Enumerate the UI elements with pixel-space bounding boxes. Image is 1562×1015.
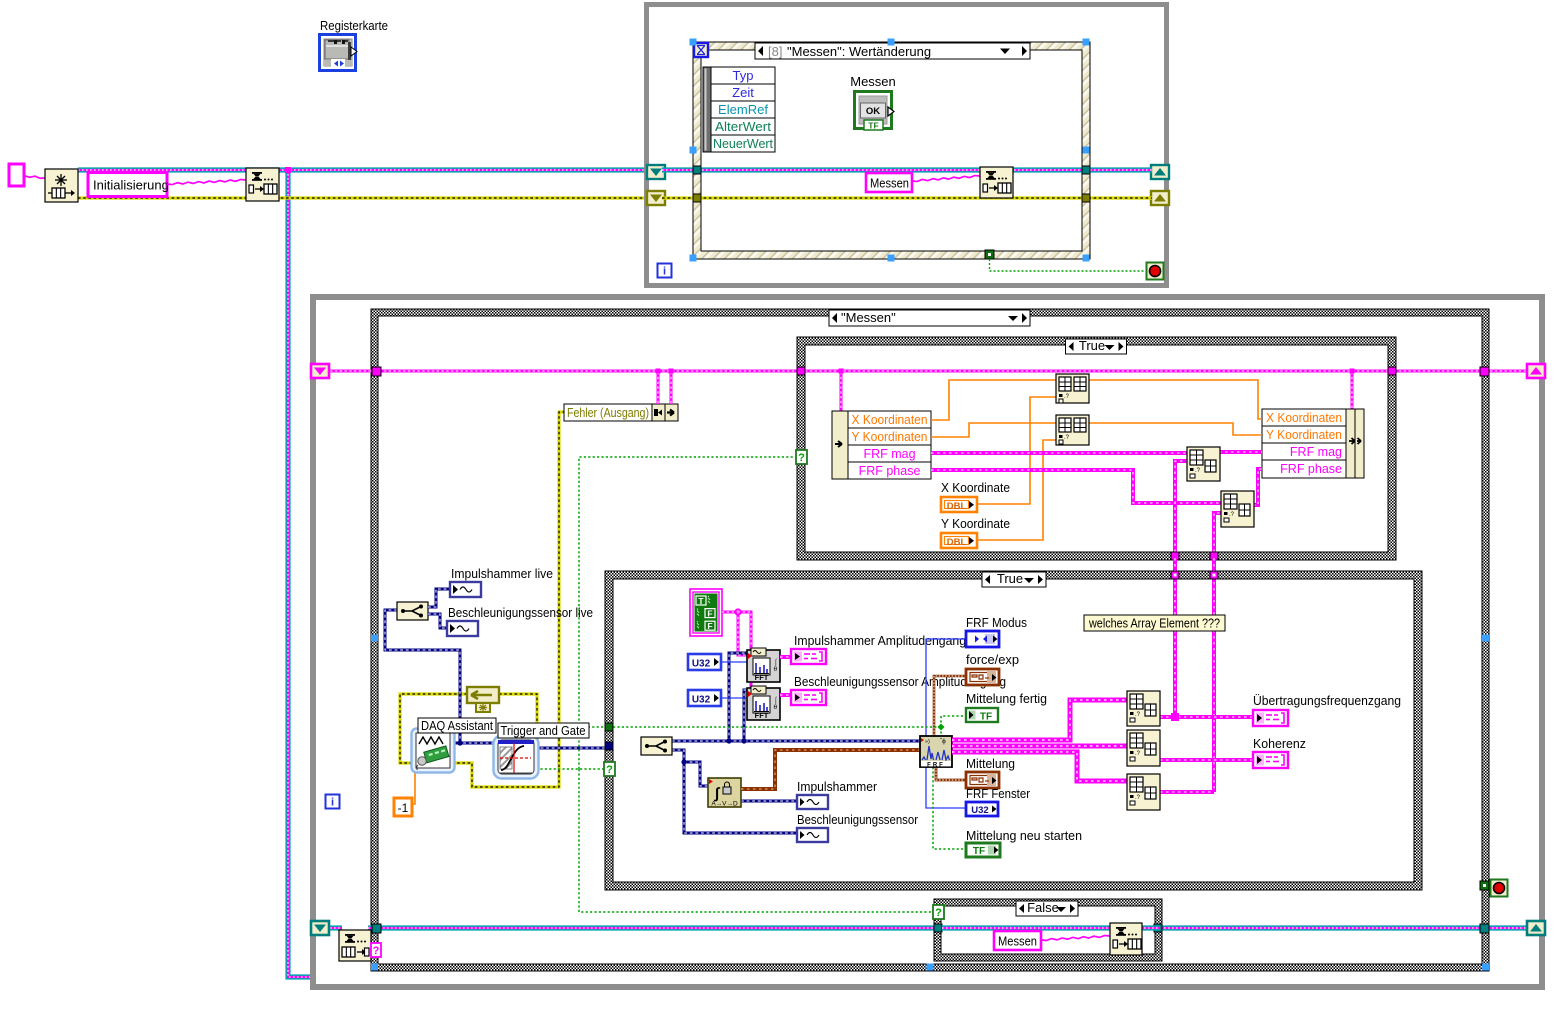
svg-text:?: ? bbox=[935, 907, 942, 919]
tunnel: queue out of False case bbox=[1154, 924, 1162, 932]
svg-text:FRF mag: FRF mag bbox=[1290, 445, 1342, 459]
wire: string Initialisierung to Enqueue bbox=[167, 179, 246, 184]
wire: boolean from Trigger and Gate (green dotted net) bbox=[536, 768, 606, 770]
svg-text:F: F bbox=[707, 621, 712, 631]
wire: dynamic data DAQ to split/Trigger bbox=[385, 610, 460, 743]
svg-text:.?: .? bbox=[1135, 795, 1141, 801]
iteration terminal top loop bbox=[658, 264, 672, 278]
shift register right (error, olive) bbox=[1151, 191, 1169, 205]
svg-text:Y Koordinaten: Y Koordinaten bbox=[1266, 428, 1342, 442]
wire: error from feedback node to Trigger and Gate bbox=[499, 694, 537, 757]
svg-text:i: i bbox=[663, 266, 666, 278]
svg-text:FRF Modus: FRF Modus bbox=[966, 615, 1027, 630]
wire: FRF phase array to insert node 4 bbox=[931, 470, 1221, 503]
while loop (main measurement loop) bbox=[310, 294, 1545, 990]
wire: branch up to FFT 1 bbox=[729, 653, 748, 741]
wire: error across event structure bbox=[662, 196, 1152, 199]
wire: X Koordinate to insert node 1 bbox=[977, 397, 1056, 504]
svg-text:θ: θ bbox=[774, 666, 778, 673]
wire: index node B to Koherenz bbox=[1160, 758, 1253, 762]
wire: queue across event structure bbox=[662, 167, 1152, 172]
wire: lower branch to integration and indicators bbox=[672, 750, 797, 833]
wire: cluster from Bundle By Name up to main bbox=[1351, 372, 1354, 409]
svg-text:U32: U32 bbox=[971, 805, 988, 816]
svg-text:F: F bbox=[707, 609, 712, 619]
wire: insert node 4 out to Bundle FRF phase bbox=[1253, 469, 1262, 505]
wire: U32 to FFT2 bbox=[721, 697, 748, 699]
svg-text:.?: .? bbox=[1135, 751, 1141, 757]
wire: index node C output up to case 1 bbox=[1160, 790, 1214, 794]
label: welches Array Element ??? bbox=[1084, 615, 1225, 631]
wire: integration brown ribbon to FRF bbox=[741, 750, 921, 789]
wire: force/exp to FRF node bbox=[934, 676, 966, 736]
svg-text:TF: TF bbox=[868, 121, 878, 131]
tunnel: error right bbox=[1082, 194, 1090, 202]
wire: split to Impulshammer live bbox=[428, 589, 450, 607]
boolean array constant T F F bbox=[690, 589, 722, 636]
tunnel: queue out of case (right) bbox=[1480, 924, 1489, 933]
wire: error from DAQ Assistant to Fehler (Ausgang) bbox=[452, 412, 564, 787]
shift register left (queue, teal) bbox=[647, 165, 665, 179]
svg-text:?: ? bbox=[373, 945, 380, 957]
wire: queue along bottom inside case bbox=[379, 925, 936, 930]
svg-text:"Messen": Wertänderung: "Messen": Wertänderung bbox=[787, 44, 931, 59]
wire: cluster branch down to Fehler (Ausgang) cell 1 bbox=[657, 372, 660, 404]
case selector terminal case2 bbox=[604, 762, 615, 776]
svg-text:Beschleunigungssensor: Beschleunigungssensor bbox=[797, 812, 919, 827]
svg-text:force/exp: force/exp bbox=[966, 652, 1019, 667]
tunnel: cluster out of case (right) bbox=[1480, 367, 1489, 376]
case selector terminal (string ?) bbox=[371, 943, 381, 957]
svg-text:Trigger and Gate: Trigger and Gate bbox=[501, 724, 586, 738]
svg-text:T: T bbox=[698, 596, 704, 606]
svg-text:Y Koordinate: Y Koordinate bbox=[941, 516, 1010, 531]
svg-text:Messen: Messen bbox=[850, 74, 896, 89]
wire: split to Beschleunigungssensor live bbox=[428, 614, 447, 628]
node: Bundle By Name (right) bbox=[1262, 409, 1346, 478]
wire: insert node 2 out to Bundle Y bbox=[1089, 423, 1262, 435]
svg-text:X Koordinaten: X Koordinaten bbox=[852, 413, 928, 427]
svg-text:Typ: Typ bbox=[733, 68, 754, 83]
tunnel: cluster into case (left) bbox=[372, 367, 381, 376]
event structure border bbox=[693, 42, 1090, 259]
wire: queue refnum vertical branch down to lower loop bbox=[288, 170, 312, 977]
svg-text:Impulshammer live: Impulshammer live bbox=[451, 566, 553, 581]
case selector terminal case1 bbox=[796, 450, 807, 464]
wire: boolean Mittelung neu starten bbox=[933, 767, 966, 849]
wire: U32 to FFT1 bbox=[721, 661, 748, 663]
svg-text:AlterWert: AlterWert bbox=[715, 119, 771, 134]
case selector terminal False case bbox=[933, 905, 944, 919]
svg-text:ElemRef: ElemRef bbox=[718, 102, 768, 117]
constant U32 (FFT 2) bbox=[688, 690, 721, 706]
tunnel: FRF mag bottom of case1 bbox=[1171, 552, 1179, 560]
tunnel: FRF mag top of case2 bbox=[1171, 571, 1179, 579]
string control (unlabeled) bbox=[9, 164, 24, 186]
wire: new FRF phase element from case 2 up to node 4 bbox=[1214, 513, 1221, 558]
tunnel: FRF phase bottom of case1 bbox=[1210, 552, 1218, 560]
tunnel: queue into False case bbox=[934, 924, 942, 932]
svg-text:FRF phase: FRF phase bbox=[1280, 462, 1342, 476]
wire: dynamic data Trigger and Gate out to case tunnel bbox=[535, 747, 608, 750]
shift register left (cluster, pink) bbox=[311, 364, 329, 378]
case structure False bbox=[934, 899, 1162, 961]
wire: stop boolean to loop condition bbox=[990, 259, 1148, 271]
svg-text:θ: θ bbox=[774, 704, 778, 711]
svg-text:NeuerWert: NeuerWert bbox=[713, 136, 773, 151]
wire: new FRF mag element from case 2 up to node 3 bbox=[1175, 461, 1187, 558]
wire: X Koordinaten array to insert node 1 bbox=[931, 380, 1056, 420]
svg-text:U32: U32 bbox=[692, 695, 711, 706]
svg-text:.?: .? bbox=[1135, 712, 1141, 718]
event structure timeout terminal bbox=[694, 43, 708, 57]
node: index array A bbox=[1127, 691, 1160, 726]
svg-text:X Koordinate: X Koordinate bbox=[941, 480, 1010, 495]
wire: FRF to Mittelung indicator bbox=[936, 767, 966, 780]
svg-text:Koherenz: Koherenz bbox=[1253, 736, 1306, 751]
tunnel: queue left bbox=[693, 166, 701, 174]
wire: error feedback loop left segment bbox=[400, 694, 467, 763]
case selector label False bbox=[1016, 901, 1078, 916]
svg-text:⌠: ⌠ bbox=[774, 658, 778, 666]
svg-text:FRF mag: FRF mag bbox=[863, 447, 915, 461]
wire: boolean array to FFT export inputs bbox=[722, 611, 738, 614]
constant -1 (orange) bbox=[394, 798, 412, 816]
tunnel: stop boolean out of case bbox=[1480, 881, 1489, 890]
event structure selection handles bbox=[690, 39, 697, 46]
svg-text:[8]: [8] bbox=[768, 44, 782, 59]
express VI: Trigger and Gate bbox=[494, 736, 539, 779]
svg-text:FFT: FFT bbox=[755, 673, 769, 682]
svg-text:DBL: DBL bbox=[947, 537, 967, 548]
node: index array C bbox=[1127, 774, 1160, 810]
shift register right (queue, teal) bbox=[1151, 165, 1169, 179]
indicator: Fehler (Ausgang) bbox=[564, 404, 678, 421]
svg-text:U32: U32 bbox=[692, 659, 711, 670]
svg-text:DAQ Assistant: DAQ Assistant bbox=[421, 719, 493, 733]
svg-text:Registerkarte: Registerkarte bbox=[320, 18, 388, 33]
node: Unbundle By Name (X/Y Koordinaten, FRF mag/phase) bbox=[832, 411, 848, 479]
case structure True (case 2) bbox=[605, 571, 1422, 890]
iteration terminal main loop bbox=[326, 795, 340, 809]
string constant Messen (False case) bbox=[994, 931, 1041, 950]
svg-text:DBL: DBL bbox=[947, 501, 967, 512]
wire: insert node 1 out to Bundle X bbox=[1089, 380, 1262, 419]
case selector label True (case 1) bbox=[1066, 339, 1127, 354]
loop condition terminal (stop, main loop) bbox=[1491, 880, 1508, 897]
svg-text:Zeit: Zeit bbox=[732, 85, 754, 100]
wire: FRF output ribbon to index node B bbox=[952, 744, 1127, 749]
wire: integration out to Impulshammer indicator bbox=[741, 800, 797, 803]
wire: error cluster from Obtain Queue to event loop bbox=[78, 196, 645, 199]
wire: FRF node to FRF Fenster bbox=[926, 767, 966, 808]
tunnel: stop condition out of event structure bbox=[985, 250, 994, 259]
svg-text:Mittelung fertig: Mittelung fertig bbox=[966, 691, 1047, 706]
wire: cluster inside case to True case 1 bbox=[379, 370, 799, 373]
svg-text:Mittelung neu starten: Mittelung neu starten bbox=[966, 828, 1082, 843]
svg-text:OK: OK bbox=[866, 106, 880, 117]
wire: string to Obtain Queue bbox=[25, 176, 45, 178]
case selector label True (case 2) bbox=[982, 572, 1046, 587]
wire: FFT2 to Beschleunigungssensor Amplitudengang bbox=[780, 693, 791, 697]
tunnel: queue right bbox=[1082, 166, 1090, 174]
node: insert into array 2 bbox=[1056, 415, 1089, 445]
node: insert into array 1 bbox=[1056, 374, 1089, 403]
express VI: DAQ Assistant bbox=[412, 729, 455, 773]
node: integration A-V-D bbox=[708, 778, 741, 807]
svg-text:TF: TF bbox=[980, 712, 992, 723]
loop condition terminal (stop) bbox=[1147, 263, 1164, 280]
svg-text:.?: .? bbox=[1064, 394, 1070, 400]
svg-text:Messen: Messen bbox=[998, 934, 1037, 949]
wire: boolean Mittelung green net bbox=[613, 726, 941, 728]
wire: queue inside False case bbox=[942, 925, 1112, 930]
wire: FFT1 to Impulshammer Amplitudengang bbox=[780, 655, 791, 659]
svg-text:Beschleunigungssensor live: Beschleunigungssensor live bbox=[448, 605, 593, 620]
constant U32 (FFT 1) bbox=[688, 654, 721, 670]
wire: -1 to DAQ Assistant bbox=[412, 770, 415, 804]
node: split signals (top) bbox=[397, 602, 428, 620]
wire: cluster across case 1 bbox=[805, 370, 1390, 373]
case structure True (coordinate arrays) bbox=[797, 337, 1396, 560]
wire: queue refnum from Obtain Queue to event loop bbox=[78, 167, 645, 172]
wire: insert node 3 out to Bundle FRF mag bbox=[1219, 450, 1262, 454]
wire: cluster branch down to Fehler (Ausgang) cell 2 bbox=[670, 372, 673, 404]
tunnel: error left bbox=[693, 194, 701, 202]
svg-text:-1: -1 bbox=[398, 801, 409, 815]
shift register left (error, olive) bbox=[647, 191, 665, 205]
wire: Y Koordinate to insert node 2 bbox=[977, 440, 1056, 540]
wire: cluster down to Unbundle By Name bbox=[840, 372, 843, 411]
svg-text:Mittelung: Mittelung bbox=[966, 756, 1015, 771]
node: insert into array 4 bbox=[1221, 491, 1254, 527]
svg-text:welches Array Element ???: welches Array Element ??? bbox=[1088, 617, 1220, 631]
svg-text:ˆϕ: ˆϕ bbox=[940, 738, 946, 745]
tunnel: dynamic data into case2 bbox=[605, 742, 613, 750]
svg-text:Impulshammer: Impulshammer bbox=[797, 779, 878, 794]
svg-text:True: True bbox=[1079, 338, 1105, 353]
svg-text:⌠: ⌠ bbox=[774, 696, 778, 704]
svg-text:FFT: FFT bbox=[755, 711, 769, 720]
node: feedback node bbox=[467, 687, 499, 703]
wire: cluster out of case to right shift register bbox=[1394, 370, 1529, 373]
svg-text:.?: .? bbox=[1064, 435, 1070, 441]
node: FFT spectrum 2 bbox=[747, 688, 780, 720]
wire: cluster from left shift register to case bbox=[330, 370, 373, 373]
tunnel: FRF phase top of case2 bbox=[1210, 571, 1218, 579]
svg-text:?: ? bbox=[606, 764, 613, 776]
node: split signals (case 2) bbox=[641, 737, 672, 755]
node: FFT spectrum 1 bbox=[747, 650, 780, 682]
svg-text:A→V→D: A→V→D bbox=[711, 801, 738, 808]
string constant Initialisierung bbox=[88, 173, 167, 197]
svg-text:i: i bbox=[331, 797, 334, 809]
svg-text:Messen: Messen bbox=[870, 176, 909, 191]
wire: branch up to FFT 2 bbox=[744, 690, 748, 741]
svg-text:Initialisierung: Initialisierung bbox=[93, 178, 169, 193]
svg-text:"Messen": "Messen" bbox=[841, 310, 896, 325]
tunnel: green boolean into case2 bbox=[605, 723, 613, 731]
svg-text:True: True bbox=[997, 571, 1023, 586]
node: Enqueue Element (event case) bbox=[980, 167, 1013, 198]
svg-text:FRF: FRF bbox=[927, 763, 945, 769]
shift register right (queue, teal) bbox=[1527, 921, 1545, 935]
tunnel: cluster out of case1 right bbox=[1388, 367, 1396, 375]
node: insert into array 3 bbox=[1187, 447, 1220, 481]
wire: FRF output ribbon to index node C bbox=[952, 752, 1127, 781]
svg-text:FRF phase: FRF phase bbox=[859, 464, 921, 478]
event data node bbox=[703, 67, 711, 152]
wire: queue stub from shift register to Dequeue bbox=[330, 925, 342, 930]
svg-text:»): ») bbox=[925, 739, 930, 745]
tunnel: queue into case (left) bbox=[372, 924, 381, 933]
svg-text:Fehler (Ausgang): Fehler (Ausgang) bbox=[567, 406, 649, 420]
svg-text:Impulshammer Amplitudengang: Impulshammer Amplitudengang bbox=[794, 633, 966, 648]
svg-text:.?: .? bbox=[1195, 468, 1201, 474]
tunnel: cluster into case1 left bbox=[797, 367, 805, 375]
label: Trigger and Gate bbox=[498, 723, 589, 738]
shift register right (cluster, pink) bbox=[1527, 364, 1545, 378]
while loop (event handling loop) bbox=[644, 2, 1169, 288]
wire: FRF phase vertical between cases bbox=[1212, 558, 1216, 792]
string constant Messen (event case) bbox=[866, 173, 912, 192]
shift register left (queue, teal) bbox=[311, 921, 329, 935]
svg-text:False: False bbox=[1027, 900, 1059, 915]
wire: string Messen to Enqueue (False case) bbox=[1041, 936, 1110, 941]
wire: dynamic data main line to FRF bbox=[672, 740, 921, 743]
wire: index node A to Uebertragungsfrequenzgang bbox=[1160, 715, 1253, 719]
node: Obtain Queue bbox=[45, 169, 78, 202]
svg-text:TF: TF bbox=[973, 846, 985, 857]
wire: string Messen to Enqueue bbox=[912, 176, 980, 182]
wire: Y Koordinaten array to insert node 2 bbox=[931, 423, 1056, 437]
wire: FRF output ribbon to index node A bbox=[952, 700, 1127, 740]
svg-text:?: ? bbox=[798, 452, 805, 464]
node: Dequeue Element bbox=[339, 930, 371, 961]
event structure selector label [8] Messen: Wertaenderung bbox=[755, 43, 1030, 59]
case structure selection handles bbox=[371, 635, 378, 642]
svg-text:X Koordinaten: X Koordinaten bbox=[1266, 411, 1342, 425]
node: Enqueue Element (False case) bbox=[1110, 923, 1142, 955]
svg-text:Y Koordinaten: Y Koordinaten bbox=[852, 430, 928, 444]
svg-text:Übertragungsfrequenzgang: Übertragungsfrequenzgang bbox=[1253, 693, 1401, 708]
wire: junction from case1 chain at A output bbox=[1171, 713, 1179, 721]
wire: FRF mag vertical between cases bbox=[1173, 558, 1177, 718]
node: Enqueue Element bbox=[246, 168, 279, 201]
label: DAQ Assistant bbox=[418, 718, 496, 733]
svg-text:FRF Fenster: FRF Fenster bbox=[966, 786, 1031, 801]
case selector label Messen bbox=[829, 310, 1030, 326]
node: index array B bbox=[1127, 730, 1160, 766]
wire: FRF mag array to insert node 3 bbox=[931, 451, 1187, 455]
wire: FRF Modus blue to FRF node bbox=[926, 639, 966, 736]
case structure Messen border bbox=[371, 309, 1489, 971]
node: FRF (frequency response function) bbox=[920, 736, 952, 767]
svg-text:.?: .? bbox=[1229, 512, 1235, 518]
